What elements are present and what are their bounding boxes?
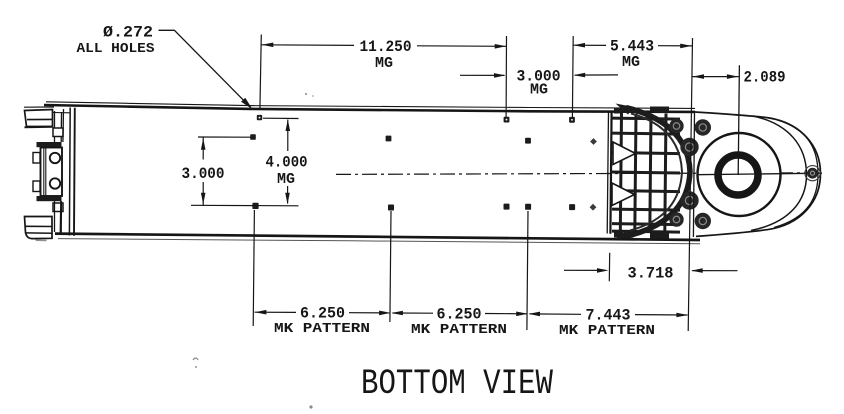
ext line x690 long [688, 38, 692, 331]
scan speck 1 [305, 93, 307, 95]
hole C3 [504, 204, 510, 210]
ext line x254 bottom [253, 210, 254, 326]
svg-text:5.443: 5.443 [610, 38, 654, 56]
svg-text:2.089: 2.089 [744, 69, 786, 87]
hole A2 [504, 117, 510, 123]
gearbox inner bore ring [718, 155, 758, 195]
svg-text:4.000: 4.000 [266, 154, 308, 172]
arrowhead 3.000 up [201, 138, 206, 150]
svg-text:11.250: 11.250 [360, 38, 412, 56]
arrowhead 4.000 down [285, 193, 290, 205]
hole A1 (leader target) [257, 115, 262, 120]
svg-text:MG: MG [375, 56, 393, 72]
leader line [159, 30, 251, 107]
curved clamp band inner arc [630, 114, 682, 231]
dim line 6.250 a [255, 311, 297, 313]
hole B1 [250, 134, 256, 140]
ext line left of 11.250 [260, 35, 261, 111]
svg-text:6.250: 6.250 [300, 305, 345, 323]
bolt circle bottom-right [695, 213, 711, 229]
dim 3.000MG right tail [575, 74, 618, 76]
svg-text:6.250: 6.250 [437, 306, 482, 324]
hole B2 [386, 136, 392, 142]
gearbox large circle [698, 133, 781, 216]
center vertical line into bore [738, 65, 739, 175]
dim line 11.250 [262, 44, 355, 47]
arrowhead chain 528 right [529, 312, 541, 317]
nose contour arc inner [751, 116, 807, 231]
horizontal centerline dash-dot [336, 173, 822, 175]
scan speck 3 [309, 405, 312, 408]
svg-text:MG: MG [622, 55, 640, 71]
dim 3.000 vert bottom h-line [191, 204, 299, 207]
hole C6 diamond [590, 204, 597, 211]
svg-text:MK PATTERN: MK PATTERN [559, 323, 655, 339]
arrowhead 3.000MG right [574, 73, 586, 78]
arrowhead 11.250 right [495, 44, 507, 49]
bolt circle lower-mid [680, 191, 698, 209]
arrowhead 3.718 left [597, 268, 609, 273]
left end mounting bracket [24, 107, 70, 241]
svg-text:Ø.272: Ø.272 [103, 24, 153, 42]
hole C1 [252, 203, 258, 209]
arrowhead chain 528 left [516, 312, 528, 317]
arrowhead chain 391 right [391, 311, 403, 316]
hole B3 [525, 138, 531, 144]
svg-text:ALL HOLES: ALL HOLES [77, 41, 155, 57]
ext line x528 bottom [527, 211, 528, 330]
nose flange vertical edge [693, 112, 694, 237]
bolt circle bottom-left [669, 212, 683, 226]
scan speck 2 [193, 358, 198, 360]
dim line 7.443 [530, 313, 582, 315]
arrowhead 5.443 left [574, 43, 586, 48]
dim line 2.089 [692, 76, 739, 78]
nose contour arc outer [774, 120, 818, 228]
ext line x609 short [608, 253, 610, 281]
lower rib triangle pointer [612, 183, 635, 206]
machine body left edge double line [68, 108, 71, 236]
ext line x506 [505, 36, 507, 118]
arrowhead 2.089 right [727, 74, 739, 79]
svg-text:MK PATTERN: MK PATTERN [274, 321, 370, 337]
arrowhead chain 391 left [379, 311, 391, 316]
svg-text:7.443: 7.443 [586, 306, 631, 324]
arrowhead 2.089 left [693, 74, 705, 79]
machine body top edge thick line [44, 105, 695, 112]
small shaft circle right [807, 168, 818, 179]
svg-text:3.000: 3.000 [182, 165, 225, 183]
machine body top edge thin line [46, 102, 695, 109]
dim line 5.443 [573, 44, 606, 46]
dim 3.718 left tail [564, 269, 606, 271]
nose outline [694, 112, 821, 236]
arrowhead chain 688 right [676, 313, 688, 318]
hole C4 [525, 204, 531, 210]
dim 4.000 top h-line [263, 117, 299, 119]
dim 3.000MG left tail [460, 74, 505, 76]
center horizontal line in bore [697, 173, 822, 175]
curved clamp band outer arc [625, 108, 690, 237]
machine body bottom edge thick line [55, 234, 700, 240]
svg-text:3.718: 3.718 [628, 265, 674, 283]
bolt circle top-right [695, 119, 711, 135]
hole C5 [569, 204, 575, 210]
clamp band top hook [616, 104, 635, 115]
svg-text:MK PATTERN: MK PATTERN [411, 322, 507, 338]
hole A3 [569, 117, 575, 123]
dim 3.718 right tail [692, 270, 737, 272]
svg-text:MG: MG [530, 83, 548, 99]
ribbed casting grid [607, 107, 680, 239]
machine body bottom edge thin line [58, 239, 700, 244]
bolt circle upper-mid [680, 138, 698, 156]
bolt circle top-left [669, 119, 683, 133]
clamp band bottom hook [615, 230, 634, 240]
svg-text:MG: MG [277, 172, 295, 188]
leader arrowhead [241, 98, 253, 110]
svg-text:BOTTOM VIEW: BOTTOM VIEW [361, 364, 553, 404]
ext line x573 [571, 36, 574, 118]
arrowhead 3.718 right [691, 268, 703, 273]
dim 3.000 vert top h-line [198, 136, 251, 138]
dim line 4.000 vertical [287, 120, 289, 152]
hole C2 [388, 205, 394, 211]
hole B4 diamond [590, 138, 597, 145]
upper rib triangle pointer [613, 142, 636, 165]
ext line x391 bottom [390, 211, 391, 322]
arrowhead 3.000MG left [494, 73, 506, 78]
dim line 3.000 vertical [202, 137, 204, 159]
arrowhead 11.250 left [262, 43, 274, 48]
arrowhead 3.000 down [201, 193, 206, 205]
arrowhead 4.000 up [286, 120, 291, 132]
arrowhead 5.443 right [680, 44, 692, 49]
dim line 6.250 b [393, 312, 434, 314]
arrowhead chain 254 left [255, 310, 267, 315]
